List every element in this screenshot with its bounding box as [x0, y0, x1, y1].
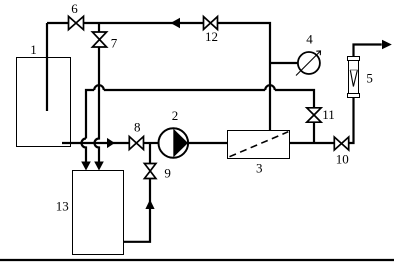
- svg-text:8: 8: [134, 119, 141, 134]
- wire top horizontal right segment with elbow down: [218, 23, 271, 131]
- pressure gauge 4: [296, 32, 321, 76]
- flow arrow left on top line: [171, 18, 181, 28]
- wire left drop vertical hop over bottom line, into tank 13: [82, 139, 87, 163]
- wire top horizontal left segment: [47, 22, 69, 24]
- pump 2: [159, 108, 189, 158]
- wire valve 7 branch vertical upper stub: [98, 23, 100, 32]
- svg-text:2: 2: [172, 108, 179, 123]
- svg-text:4: 4: [306, 32, 313, 47]
- bottom rule: [0, 259, 394, 261]
- wire middle horizontal line y=90 left elbow: [86, 90, 94, 139]
- svg-text:1: 1: [30, 42, 37, 57]
- svg-text:9: 9: [164, 166, 171, 181]
- svg-text:7: 7: [111, 36, 118, 51]
- membrane module 3: [228, 131, 290, 176]
- wire gauge stub: [270, 62, 298, 64]
- svg-text:11: 11: [322, 107, 335, 122]
- valve 7: [92, 32, 117, 51]
- wire valve 11 to bottom line: [313, 122, 315, 143]
- rotameter 5: [348, 57, 373, 98]
- valve 10: [334, 137, 349, 167]
- wire valve 7 branch vertical with hop over bottom line: [95, 47, 100, 162]
- wire valve 9 down, elbow left into tank 13: [124, 179, 151, 242]
- flow arrow right on bottom line: [107, 138, 115, 148]
- wire dip tube into tank 1: [46, 23, 48, 111]
- valve 6: [69, 1, 84, 30]
- valve 12: [204, 17, 219, 44]
- svg-text:10: 10: [336, 152, 349, 167]
- valve 11: [307, 107, 335, 122]
- wire middle horizontal run: [104, 89, 265, 91]
- flow arrow up on valve 9 branch: [145, 200, 154, 210]
- wire bottom main line from tank 1 to valve 8: [62, 142, 129, 144]
- tank 1: [17, 42, 71, 147]
- wire rotameter top elbow right to outlet: [354, 45, 382, 57]
- svg-text:3: 3: [256, 161, 263, 176]
- tank 13: [56, 171, 124, 255]
- valve 8: [129, 119, 143, 149]
- svg-text:6: 6: [71, 1, 78, 16]
- svg-text:13: 13: [56, 199, 69, 214]
- wire valve 9 branch down from bottom line: [149, 143, 151, 164]
- wire valve 8 to pump: [144, 142, 159, 144]
- wire top horizontal middle segment: [84, 22, 204, 24]
- wire hop over x=99 vertical: [94, 85, 104, 90]
- svg-text:5: 5: [366, 71, 373, 86]
- wire hop over x=270 vertical: [265, 85, 275, 90]
- wire middle horizontal right elbow down to valve 11: [275, 90, 314, 108]
- wire module 3 to valve 10: [290, 142, 335, 144]
- valve 9: [144, 164, 170, 181]
- svg-text:12: 12: [205, 29, 218, 44]
- wire pump to module 3: [188, 142, 228, 144]
- wire valve 10 elbow up to rotameter: [349, 98, 354, 144]
- flow arrow right at outlet: [382, 40, 392, 50]
- flow arrow down into tank 13 (right): [94, 162, 104, 171]
- flow arrow down into tank 13 (left): [81, 162, 91, 171]
